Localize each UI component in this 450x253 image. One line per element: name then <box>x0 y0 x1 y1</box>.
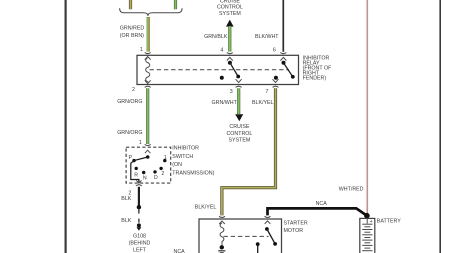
starter motor box <box>199 219 282 253</box>
starter solenoid coil <box>220 223 224 245</box>
svg-text:N: N <box>143 176 147 182</box>
svg-text:LEFT: LEFT <box>133 248 147 253</box>
inhibitor switch pivot and arm to P <box>146 155 150 159</box>
pin 1 connector cup <box>145 53 151 54</box>
svg-text:D: D <box>154 175 158 181</box>
wire WHT/RED vertical to battery <box>366 0 368 216</box>
inhibitor switch contact D <box>153 170 156 173</box>
svg-text:BLK/YEL: BLK/YEL <box>252 100 274 106</box>
label INHIBITOR SWITCH (ON TRANSMISSION) <box>172 146 214 177</box>
left page border line <box>64 0 66 253</box>
svg-text:CONTROL: CONTROL <box>217 5 243 11</box>
svg-text:GRN/WHT: GRN/WHT <box>212 100 238 106</box>
svg-text:MOTOR: MOTOR <box>284 228 304 234</box>
inhibitor switch pin 1 connector cup <box>145 144 151 145</box>
arrow up to cruise control system <box>226 20 234 27</box>
svg-text:3: 3 <box>230 89 233 95</box>
svg-text:6: 6 <box>273 47 276 53</box>
svg-text:BATTERY: BATTERY <box>377 219 401 225</box>
svg-text:SYSTEM: SYSTEM <box>229 138 251 144</box>
relay switch 6-7 <box>273 57 295 82</box>
relay switch 4-3 <box>220 57 242 82</box>
svg-text:2: 2 <box>161 171 164 177</box>
svg-text:STARTER: STARTER <box>284 221 308 227</box>
starter pin A connector cup <box>219 216 225 217</box>
wire BLK continuation to ground <box>138 209 140 213</box>
svg-text:(BEHIND: (BEHIND <box>129 241 151 247</box>
wire GRN/RED (OR BRN) from brace to relay pin 1 <box>148 17 150 52</box>
battery <box>360 218 375 253</box>
inhibitor switch pin 1 chevron <box>145 150 151 153</box>
svg-text:G108: G108 <box>133 233 146 239</box>
ground G108 <box>137 223 141 227</box>
starter coil ground <box>220 245 224 249</box>
label CRUISE CONTROL SYSTEM (top) <box>217 0 243 17</box>
svg-text:NCA: NCA <box>174 249 186 253</box>
inhibitor switch contact P <box>132 159 135 162</box>
svg-text:BLK/WHT: BLK/WHT <box>255 34 279 40</box>
label CRUISE CONTROL SYSTEM (middle) <box>226 124 252 144</box>
svg-text:SYSTEM: SYSTEM <box>219 11 241 17</box>
relay actuation dashed line <box>150 69 290 71</box>
inhibitor switch contact N <box>142 171 145 174</box>
svg-text:GRN/ORG: GRN/ORG <box>117 130 142 136</box>
svg-text:7: 7 <box>266 89 269 95</box>
wire BLK from inhibitor switch pin 2 <box>138 187 140 207</box>
svg-text:GRN/BLK: GRN/BLK <box>204 34 228 40</box>
starter pin A chevron <box>219 221 225 224</box>
junction node <box>137 205 141 209</box>
svg-text:(OR BRN): (OR BRN) <box>120 33 144 39</box>
inhibitor switch contact 1 <box>163 159 166 162</box>
inhibitor switch pin 2 connector cup <box>136 185 142 186</box>
starter pin B connector cup <box>265 216 271 217</box>
right page border line <box>439 0 441 253</box>
pin 6 connector cup <box>280 53 286 54</box>
wire BLK/YEL relay pin 7 to starter motor <box>222 88 276 215</box>
starter actuation dashed line <box>224 235 269 237</box>
wire stub top-left (brown) into brace <box>129 0 132 9</box>
svg-text:1: 1 <box>139 140 142 146</box>
svg-text:FENDER): FENDER) <box>303 75 327 81</box>
svg-text:CONTROL: CONTROL <box>226 131 252 137</box>
wire GRN/BLK from arrow to relay pin 4 <box>228 26 231 52</box>
svg-text:WHT/RED: WHT/RED <box>339 186 364 192</box>
svg-text:R: R <box>134 173 138 179</box>
svg-text:4: 4 <box>220 48 223 54</box>
svg-text:BLK/YEL: BLK/YEL <box>195 204 217 210</box>
svg-text:NCA: NCA <box>316 201 328 207</box>
wire NCA thick black to battery <box>268 208 367 215</box>
pin 3 connector cup <box>236 86 242 87</box>
svg-text:1: 1 <box>140 47 143 53</box>
svg-text:2: 2 <box>132 87 135 93</box>
svg-text:TRANSMISSION): TRANSMISSION) <box>172 171 214 177</box>
starter switch <box>265 227 269 231</box>
svg-text:GRN/ORG: GRN/ORG <box>117 99 142 105</box>
starter pin B chevron <box>265 221 271 224</box>
inhibitor switch contact 2 <box>159 167 162 170</box>
svg-text:GRN/RED: GRN/RED <box>120 25 145 31</box>
pin 4 connector cup <box>227 53 233 54</box>
wire GRN/WHT relay pin 3 down to arrow <box>237 88 240 114</box>
svg-text:(ON: (ON <box>172 162 182 168</box>
label INHIBITOR RELAY (FRONT OF RIGHT FENDER) <box>303 55 333 81</box>
svg-text:1: 1 <box>164 155 167 161</box>
pin 2 connector cup <box>145 86 151 87</box>
wire BLK/WHT to relay pin 6 <box>282 0 284 52</box>
brace joining wires <box>120 8 183 16</box>
svg-text:CRUISE: CRUISE <box>229 124 249 130</box>
pin 7 connector cup <box>273 86 279 87</box>
inhibitor switch wire P contact to pin 2 <box>131 161 139 183</box>
svg-text:SWITCH: SWITCH <box>172 154 193 160</box>
wire GRN/ORG relay pin 2 to inhibitor switch pin 1 <box>146 88 149 144</box>
junction node at battery <box>364 213 370 219</box>
svg-text:BLK: BLK <box>121 218 131 224</box>
wire stub top-right (green) into brace <box>174 0 177 9</box>
svg-text:P: P <box>129 155 133 161</box>
inhibitor switch dashed box <box>126 147 171 183</box>
arrow down to cruise control system <box>235 114 243 121</box>
relay coil between pins 1 and 2 <box>145 57 151 84</box>
inhibitor switch pin 2 chevron <box>136 180 141 183</box>
inhibitor relay box <box>137 55 299 84</box>
svg-text:INHIBITOR: INHIBITOR <box>172 146 199 152</box>
inhibitor switch contact R <box>135 167 138 170</box>
svg-text:BLK: BLK <box>121 196 131 202</box>
